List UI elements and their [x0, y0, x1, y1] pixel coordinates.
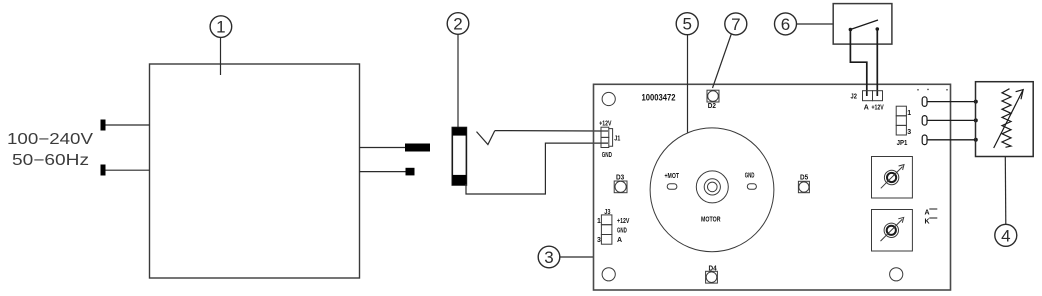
- svg-text:6: 6: [781, 15, 790, 34]
- svg-text:1: 1: [216, 18, 225, 37]
- wire switch right to J2: [876, 29, 878, 96]
- svg-text:A: A: [617, 237, 622, 244]
- junction dot 1: [974, 100, 978, 104]
- svg-text:+12V: +12V: [599, 120, 611, 127]
- power supply box (1): [150, 64, 360, 278]
- LED D3: [614, 174, 627, 192]
- svg-text:+12V: +12V: [872, 104, 884, 111]
- pad P1: [922, 97, 927, 107]
- AC prong N: [101, 165, 106, 176]
- junction dot 2: [974, 118, 978, 122]
- potentiometer P2: [872, 210, 913, 252]
- LED D2: [707, 90, 719, 110]
- wire L to supply: [106, 124, 150, 126]
- wire +12V into J1 pin: [601, 130, 608, 132]
- DC output wire -: [360, 171, 406, 173]
- svg-text:1: 1: [597, 218, 601, 225]
- svg-text:3: 3: [544, 248, 553, 267]
- svg-text:50−60Hz: 50−60Hz: [12, 152, 89, 169]
- svg-text:3: 3: [597, 237, 601, 244]
- svg-text:100−240V: 100−240V: [7, 131, 94, 148]
- balloon 2: [447, 13, 469, 128]
- wire pad3 to load: [928, 139, 976, 141]
- balloon 4: [995, 157, 1017, 247]
- svg-text:D4: D4: [709, 265, 717, 272]
- potentiometer P1: [872, 157, 913, 199]
- pad +MOT: [667, 184, 677, 190]
- wire +12V to J1: [495, 130, 601, 132]
- svg-text:+12V: +12V: [617, 218, 630, 225]
- PCB board outline: [594, 84, 951, 290]
- svg-text:GND: GND: [745, 172, 755, 179]
- silk dots: [917, 89, 948, 91]
- svg-text:GND: GND: [602, 152, 612, 159]
- switch contact right: [876, 27, 880, 31]
- motor outline circle: [650, 128, 774, 252]
- barrel jack bottom cap: [452, 175, 466, 185]
- connector J3: [601, 215, 612, 244]
- svg-text:J2: J2: [851, 94, 857, 101]
- svg-text:MOTOR: MOTOR: [701, 217, 721, 224]
- DC plug contact +: [405, 144, 430, 152]
- switch lever: [850, 20, 878, 30]
- svg-text:D3: D3: [616, 174, 624, 181]
- svg-text:3: 3: [907, 129, 911, 136]
- pad P3: [922, 135, 927, 145]
- pad P2: [922, 116, 927, 126]
- svg-text:10003472: 10003472: [642, 93, 676, 104]
- svg-text:1: 1: [907, 110, 911, 117]
- svg-text:A: A: [864, 104, 869, 111]
- mounting hole bottom-left: [602, 268, 615, 281]
- svg-text:J1: J1: [614, 136, 620, 143]
- svg-text:4: 4: [1001, 226, 1010, 245]
- svg-text:2: 2: [453, 15, 462, 34]
- switch box: [833, 4, 892, 45]
- balloon 6: [775, 13, 834, 35]
- svg-text:+MOT: +MOT: [665, 173, 680, 180]
- balloon 7: [713, 13, 747, 88]
- wire GND to J1: [466, 143, 608, 194]
- svg-text:D2: D2: [708, 103, 716, 110]
- svg-text:5: 5: [682, 15, 691, 34]
- pad GND: [747, 184, 756, 190]
- balloon 3: [538, 246, 593, 268]
- mounting hole bottom-right: [890, 268, 903, 281]
- svg-text:J3: J3: [604, 209, 610, 216]
- LED D4: [706, 265, 718, 283]
- variable arrow: [994, 90, 1024, 148]
- AC rating label: [7, 131, 94, 169]
- plug tip notch: [477, 131, 495, 145]
- LED D5: [798, 175, 809, 193]
- junction dot 3: [974, 138, 978, 142]
- connector JP1: [896, 106, 906, 135]
- AC prong L: [101, 120, 106, 131]
- connector J1: [601, 127, 613, 147]
- svg-text:A: A: [925, 209, 930, 216]
- mounting hole top-left: [602, 92, 615, 105]
- svg-text:GND: GND: [617, 228, 627, 235]
- wire pad1 to load: [928, 101, 976, 103]
- wire switch left to J2: [850, 30, 866, 97]
- barrel jack top cap: [452, 128, 466, 136]
- barrel jack body: [452, 128, 466, 186]
- load box (4): [976, 82, 1034, 157]
- balloon 5: [676, 13, 698, 133]
- balloon 1: [210, 16, 232, 75]
- connector J2: [863, 91, 883, 101]
- motor shaft circles: [696, 171, 728, 203]
- svg-text:K: K: [925, 218, 930, 225]
- svg-text:D5: D5: [800, 175, 808, 182]
- heater zigzag: [1002, 89, 1011, 148]
- svg-text:7: 7: [731, 15, 740, 34]
- DC plug contact -: [406, 168, 415, 176]
- wire pad2 to load: [928, 119, 976, 121]
- wire N to supply: [106, 169, 150, 171]
- DC output wire +: [360, 147, 406, 149]
- svg-text:JP1: JP1: [897, 140, 908, 147]
- switch contact left: [849, 28, 853, 32]
